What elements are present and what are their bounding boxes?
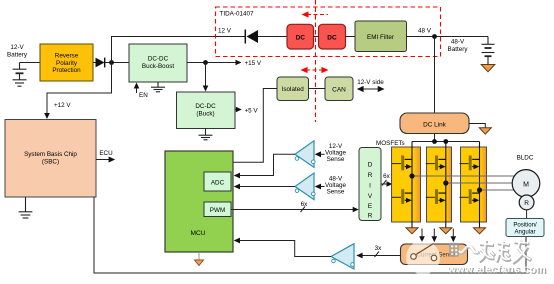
ground GND3 under buck <box>199 129 213 140</box>
mosfet box 2 <box>427 147 452 222</box>
wire PWM to DRIVER <box>231 209 353 211</box>
chassis grounds under mosfet legs <box>406 228 418 234</box>
svg-text:Protection: Protection <box>52 67 81 74</box>
block: CAN <box>325 77 353 101</box>
wire down to buck <box>205 63 207 87</box>
wire RPP to diode <box>93 62 96 64</box>
rails through boxes down to triangles <box>411 142 413 228</box>
3x wire current sense to amp <box>363 255 401 257</box>
block: PWM <box>204 202 231 217</box>
MCU chassis ground (orange triangle) <box>198 252 200 260</box>
wire battery to RPP <box>20 62 41 64</box>
wire Isolated-CAN <box>309 88 326 90</box>
svg-text:DC-DC: DC-DC <box>148 56 169 63</box>
svg-text:Position/: Position/ <box>513 221 537 228</box>
node J4 <box>432 139 437 144</box>
svg-text:DC: DC <box>327 34 337 41</box>
block: MCU <box>165 151 233 252</box>
DC link feed rail <box>434 134 436 142</box>
block: EMI Filter <box>355 21 407 52</box>
svg-text:(SBC): (SBC) <box>42 159 59 166</box>
svg-text:D: D <box>368 162 373 169</box>
svg-text:System Basis Chip: System Basis Chip <box>24 151 77 158</box>
chassis ground (orange) for 48V battery <box>481 65 495 72</box>
svg-text:TIDA-01407: TIDA-01407 <box>220 11 254 18</box>
mosfet box 1 <box>392 147 421 222</box>
svg-text:3x: 3x <box>375 245 383 252</box>
arrow +15V <box>236 60 242 66</box>
resolver R <box>519 195 534 210</box>
wire 48V node down to DC Link <box>434 37 436 114</box>
TIDA-01407 dashed box <box>216 7 441 57</box>
svg-text:Reverse: Reverse <box>55 53 79 60</box>
driver to mosfets arrow 6x <box>381 183 387 185</box>
transistor Q5 (phase C high) <box>460 156 480 171</box>
svg-text:CAN: CAN <box>332 86 346 93</box>
svg-text:MCU: MCU <box>190 230 205 237</box>
svg-text:12-V side: 12-V side <box>357 79 384 86</box>
svg-text:MOSFETs: MOSFETs <box>376 140 405 147</box>
wire A1 to ADC <box>240 154 296 175</box>
svg-text:BLDC: BLDC <box>517 154 534 161</box>
ground GND1 <box>13 80 27 86</box>
svg-text:EN: EN <box>139 92 148 99</box>
EN arrow <box>136 88 138 93</box>
isolation dashed line <box>315 0 317 122</box>
transistor Q1 (phase A high) <box>392 156 412 171</box>
svg-text:ECU: ECU <box>99 150 113 157</box>
block: Isolated <box>277 77 309 101</box>
svg-text:www.elecfans.com: www.elecfans.com <box>447 264 546 276</box>
block: System Basis Chip (SBC) <box>5 120 96 198</box>
red dashed double arrow (isolated data) <box>306 69 323 71</box>
svg-text:I: I <box>369 183 371 190</box>
svg-text:(Buck): (Buck) <box>196 111 214 118</box>
block: Current Sense <box>401 244 468 265</box>
wire SBC bottom long run to Position/Angular <box>94 197 526 273</box>
wire R to position sensor <box>526 210 528 219</box>
wire EMI to 48V battery <box>407 36 489 38</box>
svg-text:R: R <box>368 172 373 179</box>
svg-text:PWM: PWM <box>210 207 225 214</box>
node J5 <box>443 139 448 144</box>
wire A3 to MCU <box>240 241 331 257</box>
svg-text:Battery: Battery <box>448 46 469 53</box>
svg-text:R: R <box>524 200 529 207</box>
svg-text:6x: 6x <box>383 173 391 180</box>
arrow into A1 <box>321 153 325 155</box>
node phase C <box>477 187 482 192</box>
chassis ground right of DC Link <box>469 124 485 128</box>
wire +12V down to SBC <box>47 63 112 114</box>
svg-text:12-V: 12-V <box>10 44 24 51</box>
block: DC-DC Buck-Boost <box>129 44 187 82</box>
svg-text:E: E <box>368 203 372 210</box>
block: DC stage 2 <box>319 24 346 49</box>
ECU arrow <box>96 159 109 161</box>
block: DC-DC (Buck) <box>177 92 236 129</box>
transistor Q2 (phase A low) <box>392 189 412 204</box>
svg-text:EMI Filter: EMI Filter <box>367 34 394 41</box>
node J3 <box>432 34 437 39</box>
op-amp A2 (48-V sense) <box>295 173 314 200</box>
wire DC2 to EMI <box>346 36 356 38</box>
wire diode to buck-boost with node <box>105 62 129 64</box>
block: ADC <box>204 172 231 191</box>
ground GND2 under buck-boost <box>151 82 165 92</box>
svg-text:M: M <box>523 181 529 188</box>
wire Isolated to MCU <box>233 89 277 163</box>
node phase B <box>443 180 448 185</box>
svg-text:+15 V: +15 V <box>245 60 262 67</box>
red dashed arrow (top, left-pointing) <box>307 14 328 16</box>
svg-text:12 V: 12 V <box>218 28 232 35</box>
svg-text:Angular: Angular <box>514 229 535 236</box>
svg-text:R: R <box>368 213 373 220</box>
svg-text:Buck-Boost: Buck-Boost <box>142 63 174 70</box>
node J2 <box>203 60 208 65</box>
node phase A <box>409 173 414 178</box>
block: DC Link <box>400 113 469 134</box>
wire D2 to DC box <box>258 36 287 38</box>
node J1 <box>109 60 114 65</box>
wire node up to 12V top rail <box>112 37 246 63</box>
wire DC1-DC2 <box>314 36 319 38</box>
svg-text:48-V: 48-V <box>451 39 465 46</box>
wire A2 to ADC <box>240 186 296 188</box>
wire buck-boost output <box>187 62 236 64</box>
transistor Q6 (phase C low) <box>460 189 480 204</box>
svg-text:48 V: 48 V <box>418 28 432 35</box>
battery B1 (12V) <box>13 63 27 80</box>
watermark glyph scribbles (white pass) <box>479 240 531 263</box>
svg-text:Sense: Sense <box>327 189 345 196</box>
mosfet box 3 <box>461 147 487 222</box>
ground GND4 under SBC <box>19 197 33 218</box>
svg-text:Isolated: Isolated <box>282 86 305 93</box>
svg-text:ADC: ADC <box>211 179 225 186</box>
block: Position/Angular <box>506 219 544 237</box>
arrow into A2 <box>321 186 325 188</box>
watermark glyph scribbles (shadow pass) <box>480 241 532 264</box>
diode D2 on top rail (points left) <box>244 30 246 44</box>
svg-text:+5 V: +5 V <box>245 107 259 114</box>
watermark keypad glyph <box>449 243 459 257</box>
svg-text:Sense: Sense <box>327 156 345 163</box>
watermark handset swoosh <box>460 247 478 253</box>
block: DC stage 1 <box>287 24 314 49</box>
svg-text:Polarity: Polarity <box>56 60 78 67</box>
op-amp A1 (12-V sense) <box>295 141 314 168</box>
phase wires to motor <box>412 175 514 177</box>
motor M <box>512 170 540 198</box>
svg-text:V: V <box>368 193 373 200</box>
transistor Q3 (phase B high) <box>426 156 446 171</box>
switch symbol in current sense <box>416 244 434 255</box>
block: DRIVER <box>359 148 381 221</box>
watermark stamp circle <box>406 241 440 275</box>
op-amp A3 (current sense) <box>331 244 354 269</box>
arrow +5V <box>235 109 236 111</box>
svg-text:+12 V: +12 V <box>54 102 71 109</box>
svg-text:Battery: Battery <box>7 52 28 59</box>
svg-text:DC Link: DC Link <box>423 121 447 128</box>
svg-text:DC: DC <box>296 34 306 41</box>
svg-text:DC-DC: DC-DC <box>195 103 216 110</box>
current sense feed arrows <box>421 229 423 237</box>
battery B2 (48V) <box>482 37 495 65</box>
block: Reverse Polarity Protection <box>40 44 93 81</box>
transistor Q4 (phase B low) <box>426 189 446 204</box>
diode D1 <box>96 58 105 68</box>
